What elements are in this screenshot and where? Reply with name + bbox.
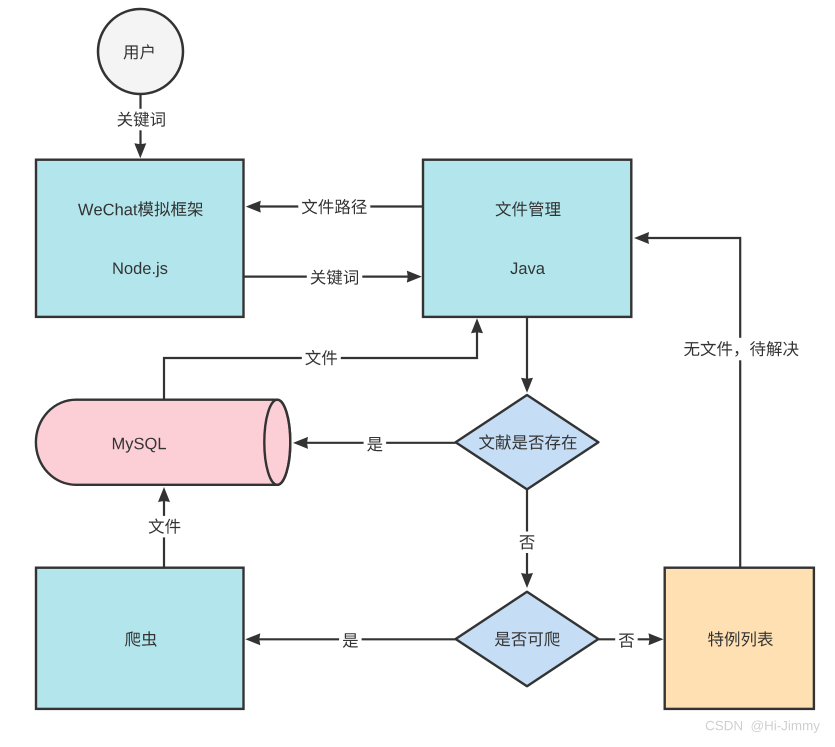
arrowhead up into MySQL bottom xyxy=(158,487,170,502)
edge label 文件 (爬虫 to MySQL) xyxy=(145,516,184,538)
wire: diamond -> MySQL xyxy=(306,442,456,444)
node: 爬虫 box xyxy=(36,568,244,709)
edge label 是 (to 爬虫) xyxy=(339,630,362,652)
edge label 关键词 (top) xyxy=(114,109,170,131)
node: decision diamond 是否可爬 xyxy=(456,592,599,686)
edge label 文件路径 xyxy=(298,196,370,218)
wire: diamond -> diamond 是否可爬 xyxy=(526,489,528,575)
wire: 是否可爬 -> 爬虫 xyxy=(259,638,456,640)
wire: MySQL -> 文件管理 (elbow) xyxy=(164,331,477,399)
edge label 否 (between diamonds) xyxy=(516,532,539,554)
edge label 关键词 (middle) xyxy=(307,267,363,289)
node: 特例列表 box xyxy=(665,568,814,709)
wire: 特例列表 -> 文件管理 (elbow) xyxy=(648,238,740,568)
arrowhead down into diamond xyxy=(521,378,533,393)
edge label 否 (to 特例列表) xyxy=(615,630,638,652)
node: WeChat模拟框架 / Node.js box xyxy=(36,160,244,317)
edge label 是 (diamond to MySQL) xyxy=(364,434,387,456)
watermark CSDN @Hi-Jimmy xyxy=(706,721,820,734)
arrowhead up into 文件管理 bottom xyxy=(471,318,483,333)
cylinder right rim ellipse xyxy=(264,400,290,485)
arrowhead left into 文件管理 right edge xyxy=(634,232,649,244)
arrowhead left into 爬虫 xyxy=(245,633,260,645)
arrowhead right into 特例列表 xyxy=(649,633,664,645)
wire: WeChat -> 文件管理 xyxy=(244,276,409,278)
arrowhead right into 文件管理 box xyxy=(407,271,422,283)
node: 文件管理 / Java box xyxy=(423,160,631,317)
arrowhead down into WeChat box xyxy=(134,143,146,158)
wire: 是否可爬 -> 特例列表 xyxy=(598,638,651,640)
edge label 文件 (MySQL to 文件管理) xyxy=(302,347,341,369)
arrowhead left into MySQL xyxy=(293,437,308,449)
arrowhead left into WeChat box xyxy=(246,201,261,213)
arrowhead down into 是否可爬 xyxy=(521,573,533,588)
node: MySQL cylinder xyxy=(36,400,290,485)
node: user circle 用户 xyxy=(98,9,183,94)
wire: 文件管理 -> WeChat xyxy=(259,205,423,207)
node: decision diamond 文献是否存在 xyxy=(456,395,599,489)
edge label 无文件，待解决 xyxy=(681,338,803,361)
wire: 文件管理 -> diamond 文献是否存在 xyxy=(526,317,528,380)
wire: 爬虫 -> MySQL xyxy=(163,500,165,568)
wire: user -> WeChat box xyxy=(139,95,141,145)
